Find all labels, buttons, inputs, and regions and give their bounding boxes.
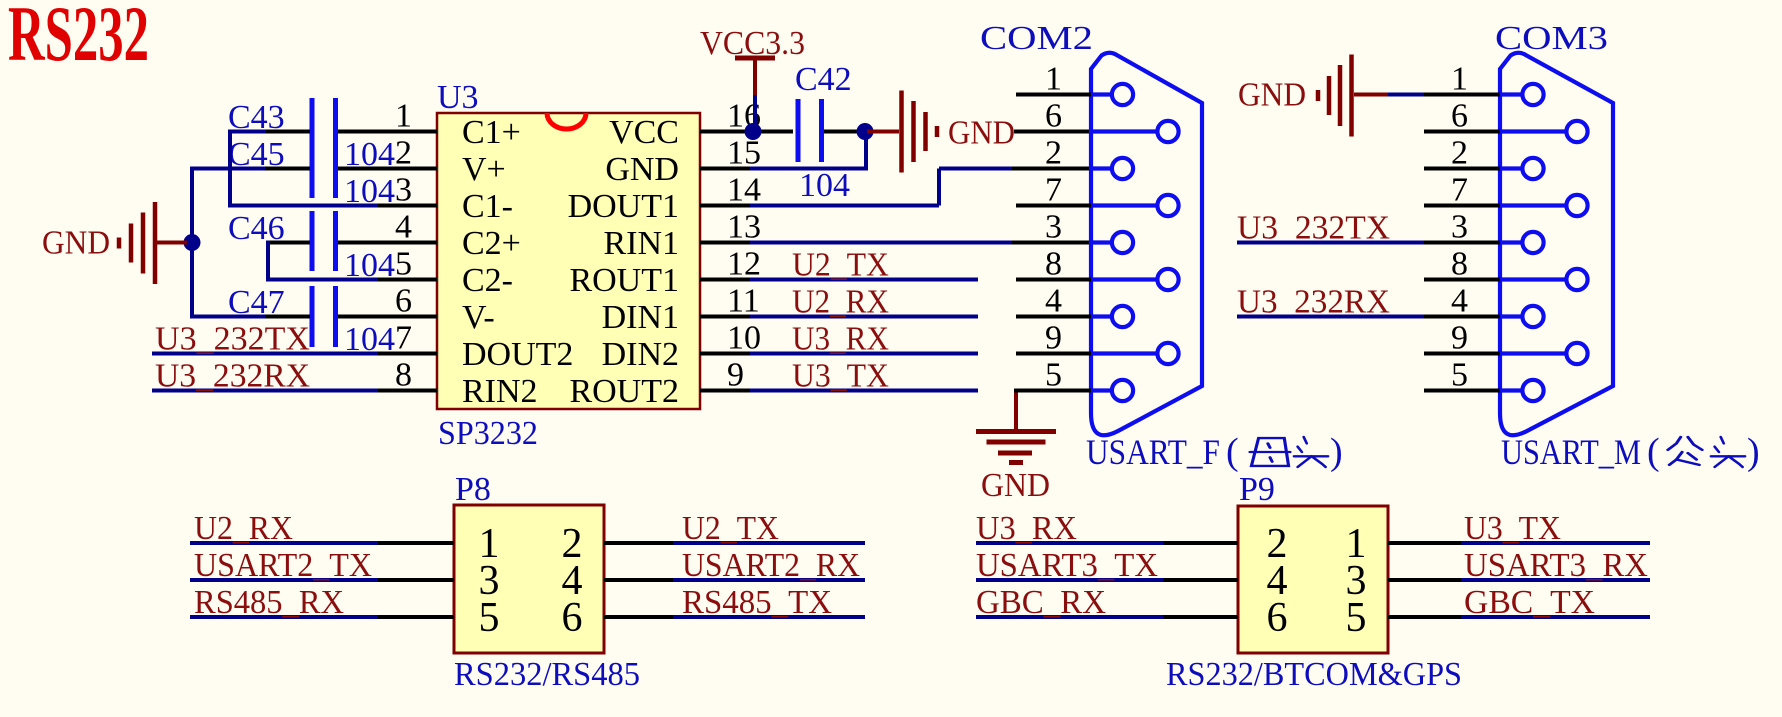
capacitor C46 plates — [310, 211, 315, 271]
wire row8 RIN2 net U3_232RX — [152, 389, 380, 393]
svg-text:USART_M: USART_M — [1501, 432, 1641, 472]
svg-text:GND: GND — [981, 467, 1050, 504]
COM2 caption CJK mu-tou — [1250, 438, 1290, 466]
wire P9 left pin 4 — [976, 578, 1165, 582]
power VCC3.3 symbol — [735, 56, 775, 61]
wire COM2 pin 7 stub — [1016, 204, 1091, 208]
svg-text:RS232/RS485: RS232/RS485 — [454, 656, 640, 693]
ground GND symbol mid — [867, 130, 899, 134]
svg-text:8: 8 — [1451, 246, 1468, 283]
svg-text:14: 14 — [727, 172, 761, 209]
wire pin11 DIN1 U2_RX — [700, 315, 752, 319]
svg-text:GND: GND — [42, 225, 110, 262]
wire pin16 VCC net — [700, 130, 793, 134]
junction VCC pin16 — [745, 123, 762, 140]
COM3 pin 4 contact — [1500, 314, 1523, 318]
wire COM3 pin 8 stub — [1424, 278, 1500, 282]
wire GND to COM3 pin1 — [1388, 93, 1427, 97]
wire pin9 ROUT2 U3_TX — [700, 389, 752, 393]
svg-text:U3_232RX: U3_232RX — [155, 358, 310, 395]
svg-text:U3_TX: U3_TX — [792, 358, 889, 395]
svg-text:10: 10 — [727, 320, 761, 357]
svg-text:1: 1 — [1045, 61, 1062, 98]
COM3 pin 3 contact — [1500, 240, 1523, 244]
svg-text:RIN2: RIN2 — [462, 373, 538, 410]
wire vertical C1+ to C1- — [228, 130, 232, 208]
connector P8 body — [454, 505, 604, 653]
svg-text:4: 4 — [1045, 283, 1062, 320]
svg-text:U3_RX: U3_RX — [792, 321, 889, 358]
svg-text:V+: V+ — [462, 151, 506, 188]
svg-text:RS485_RX: RS485_RX — [194, 584, 344, 621]
COM3 pin 8 contact — [1500, 277, 1567, 281]
wire U3_232TX to COM3 pin3 — [1237, 241, 1426, 245]
svg-text:3: 3 — [1451, 209, 1468, 246]
wire row7 DOUT2 net U3_232TX — [152, 352, 380, 356]
wire VCC stem — [753, 95, 757, 132]
svg-text:2: 2 — [1045, 135, 1062, 172]
COM3 pin 6 contact — [1500, 129, 1567, 133]
svg-text:U3: U3 — [437, 79, 479, 116]
svg-text:6: 6 — [395, 283, 412, 320]
wire P9 left pin 6 — [976, 615, 1165, 619]
svg-text:3: 3 — [395, 172, 412, 209]
svg-text:C1-: C1- — [462, 188, 513, 225]
svg-text:C42: C42 — [795, 61, 852, 98]
wire COM2 pin 9 stub — [1016, 352, 1091, 356]
svg-text:C2+: C2+ — [462, 225, 521, 262]
wire row1 C1+ net — [230, 130, 268, 134]
svg-text:8: 8 — [1045, 246, 1062, 283]
svg-text:GBC_TX: GBC_TX — [1464, 584, 1595, 621]
svg-text:7: 7 — [395, 320, 412, 357]
wire U3_232RX to COM3 pin4 — [1237, 315, 1426, 319]
svg-text:ROUT2: ROUT2 — [569, 373, 679, 410]
svg-text:6: 6 — [1045, 98, 1062, 135]
svg-text:COM2: COM2 — [980, 20, 1093, 57]
svg-text:2: 2 — [395, 135, 412, 172]
svg-text:USART3_RX: USART3_RX — [1464, 547, 1648, 584]
svg-text:GBC_RX: GBC_RX — [976, 584, 1106, 621]
svg-text:GND: GND — [1238, 77, 1306, 114]
svg-text:U3_RX: U3_RX — [976, 510, 1077, 547]
junction GND left — [184, 234, 201, 251]
svg-text:(: ( — [1226, 431, 1239, 473]
wire vertical V+ to V- — [190, 167, 194, 319]
svg-text:SP3232: SP3232 — [438, 415, 538, 452]
svg-text:13: 13 — [727, 209, 761, 246]
svg-text:11: 11 — [727, 283, 760, 320]
svg-text:1: 1 — [395, 98, 412, 135]
svg-text:RS232/BTCOM&GPS: RS232/BTCOM&GPS — [1166, 656, 1462, 693]
wire P9 right pin 3 — [1388, 578, 1463, 582]
wire C42 to GND junction — [824, 130, 866, 134]
svg-text:DIN2: DIN2 — [602, 336, 679, 373]
wire P8 left pin 5 — [190, 615, 380, 619]
wire COM3 pin 6 stub — [1424, 130, 1500, 134]
COM3 pin 9 contact — [1500, 351, 1567, 355]
wire pin14 DOUT1 to COM2 pin2 — [700, 204, 752, 208]
svg-text:7: 7 — [1451, 172, 1468, 209]
wire pin13 RIN1 to COM2 pin3 — [700, 241, 752, 245]
svg-text:9: 9 — [1045, 320, 1062, 357]
svg-text:9: 9 — [1451, 320, 1468, 357]
svg-text:5: 5 — [1451, 357, 1468, 394]
svg-text:6: 6 — [1267, 595, 1288, 641]
wire vertical C2+ to C2- — [266, 241, 270, 282]
svg-text:6: 6 — [1451, 98, 1468, 135]
svg-text:): ) — [1747, 431, 1760, 473]
wire P8 right pin 6 — [604, 615, 675, 619]
wire row4 C2+ net — [268, 241, 310, 245]
COM2 pin 8 contact — [1091, 277, 1158, 281]
svg-text:DOUT2: DOUT2 — [462, 336, 573, 373]
wire COM3 pin 7 stub — [1424, 204, 1500, 208]
svg-text:5: 5 — [395, 246, 412, 283]
svg-text:U2_RX: U2_RX — [194, 510, 293, 547]
wire COM3 pin 2 stub — [1424, 167, 1500, 171]
COM2 pin 4 contact — [1091, 314, 1113, 318]
svg-text:ROUT1: ROUT1 — [569, 262, 679, 299]
capacitor C43/C45 plates — [310, 98, 315, 198]
COM3 pin 1 contact — [1500, 92, 1523, 96]
wire COM2 pin 8 stub — [1016, 278, 1091, 282]
connector P9 body — [1238, 506, 1388, 653]
COM3 pin 2 contact — [1500, 166, 1523, 170]
COM2 pin 2 contact — [1091, 166, 1113, 170]
COM2 pin 9 contact — [1091, 351, 1158, 355]
wire COM2 pin 1 stub — [1016, 93, 1091, 97]
capacitor C42 plates — [796, 99, 801, 162]
svg-text:104: 104 — [799, 167, 850, 204]
svg-text:3: 3 — [1045, 209, 1062, 246]
junction C42 GND — [857, 123, 874, 140]
svg-text:DOUT1: DOUT1 — [568, 188, 679, 225]
connector COM2 outline — [1091, 53, 1202, 436]
svg-text:15: 15 — [727, 135, 761, 172]
wire row2 V+ net — [192, 167, 267, 171]
wire P8 right pin 4 — [604, 578, 675, 582]
svg-text:U2_RX: U2_RX — [792, 284, 889, 321]
svg-text:DIN1: DIN1 — [602, 299, 679, 336]
wire COM3 pin 5 stub — [1424, 389, 1500, 393]
svg-text:U3_232TX: U3_232TX — [155, 321, 310, 358]
wire P9 right pin 5 — [1388, 615, 1463, 619]
svg-text:7: 7 — [1045, 172, 1062, 209]
svg-text:9: 9 — [727, 357, 744, 394]
wire pin15 GND net — [700, 167, 752, 171]
svg-text:C2-: C2- — [462, 262, 513, 299]
COM2 pin 6 contact — [1091, 129, 1158, 133]
svg-text:12: 12 — [727, 246, 761, 283]
ground earth symbol below COM2 — [976, 429, 1056, 434]
ground wire from COM2 pin5 — [1014, 393, 1018, 432]
wire COM3 pin 9 stub — [1424, 352, 1500, 356]
svg-text:U2_TX: U2_TX — [792, 247, 889, 284]
wire COM3 pin 3 stub — [1424, 241, 1500, 245]
wire COM2 pin 5 stub — [1014, 389, 1091, 393]
COM2 pin 5 contact — [1091, 388, 1113, 392]
capacitor C47 plates — [310, 286, 315, 347]
COM2 pin 7 contact — [1091, 203, 1158, 207]
svg-text:4: 4 — [395, 209, 412, 246]
svg-text:2: 2 — [1451, 135, 1468, 172]
svg-text:): ) — [1330, 431, 1343, 473]
svg-text:VCC: VCC — [609, 114, 679, 151]
svg-text:P8: P8 — [455, 471, 491, 508]
svg-text:RIN1: RIN1 — [603, 225, 679, 262]
svg-text:RS232: RS232 — [8, 0, 149, 77]
connector COM3 outline — [1500, 53, 1613, 436]
wire P9 right pin 1 — [1388, 541, 1463, 545]
wire COM2 pin 4 stub — [1016, 315, 1091, 319]
ground GND left of U3 — [153, 202, 158, 284]
svg-text:C1+: C1+ — [462, 114, 521, 151]
svg-text:P9: P9 — [1239, 471, 1275, 508]
wire P8 right pin 2 — [604, 541, 675, 545]
op-amp U3 SP3232 body — [437, 113, 700, 409]
svg-text:5: 5 — [479, 595, 500, 641]
svg-text:V-: V- — [462, 299, 495, 336]
wire GND to COM2 pin6 — [1014, 130, 1091, 134]
svg-text:USART_F: USART_F — [1086, 432, 1220, 472]
svg-text:4: 4 — [1451, 283, 1468, 320]
svg-text:1: 1 — [1451, 61, 1468, 98]
wire COM3 pin 1 stub — [1424, 93, 1500, 97]
wire row3 C1- net — [230, 204, 380, 208]
wire P8 left pin 1 — [190, 541, 380, 545]
wire pin12 ROUT1 U2_TX — [700, 278, 752, 282]
COM2 pin 3 contact — [1091, 240, 1113, 244]
svg-text:8: 8 — [395, 357, 412, 394]
wire COM3 pin 4 stub — [1424, 315, 1500, 319]
svg-text:GND: GND — [948, 115, 1015, 152]
svg-text:U2_TX: U2_TX — [682, 510, 779, 547]
svg-text:COM3: COM3 — [1495, 20, 1608, 57]
svg-text:5: 5 — [1045, 357, 1062, 394]
svg-text:USART2_RX: USART2_RX — [682, 547, 860, 584]
COM3 pin 7 contact — [1500, 203, 1567, 207]
svg-text:U3_TX: U3_TX — [1464, 510, 1561, 547]
svg-text:USART3_TX: USART3_TX — [976, 547, 1158, 584]
svg-text:VCC3.3: VCC3.3 — [700, 25, 805, 62]
svg-text:USART2_TX: USART2_TX — [194, 547, 372, 584]
COM2 pin 1 contact — [1091, 92, 1113, 96]
wire pin10 DIN2 U3_RX — [700, 352, 752, 356]
svg-text:(: ( — [1647, 431, 1660, 473]
svg-text:GND: GND — [605, 151, 679, 188]
wire P8 left pin 3 — [190, 578, 380, 582]
wire row5 C2- net — [268, 278, 380, 282]
U3 pin-1 notch arc — [547, 113, 586, 129]
COM3 pin 5 contact — [1500, 388, 1523, 392]
COM3 caption CJK gong-tou — [1668, 437, 1702, 465]
svg-text:6: 6 — [562, 595, 583, 641]
svg-text:RS485_TX: RS485_TX — [682, 584, 832, 621]
svg-text:5: 5 — [1346, 595, 1367, 641]
wire row6 V- net — [192, 315, 267, 319]
wire P9 left pin 2 — [976, 541, 1165, 545]
